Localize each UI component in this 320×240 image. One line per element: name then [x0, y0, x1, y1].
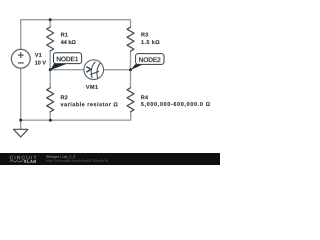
label R3: [141, 33, 148, 37]
node NODE1 flag box: [54, 53, 82, 64]
label R2: [61, 95, 68, 99]
footer title: [46, 155, 75, 158]
footer bar: [0, 153, 220, 165]
node NODE2 text: [139, 57, 161, 62]
wire ground stub: [20, 120, 22, 129]
junction node mid R1R2: [49, 68, 52, 71]
node NODE1 flag pointer: [50, 63, 66, 70]
label R4: [141, 95, 148, 99]
junction ground tee: [19, 119, 22, 122]
value 1.5 kOhm: [141, 40, 159, 44]
footer logo wave: [10, 160, 24, 162]
label V1: [35, 53, 42, 57]
voltmeter VM1 arrow: [86, 67, 91, 73]
wire R2 top lead: [49, 70, 51, 88]
label R1: [61, 33, 68, 37]
wire top rail: [21, 20, 131, 50]
wire R1 bottom lead: [49, 51, 51, 70]
value 44 kOhm: [61, 40, 76, 44]
wire mid right: [104, 69, 131, 71]
resistor R1: [47, 27, 54, 51]
wire R3 bottom lead: [130, 51, 132, 69]
junction node mid R3R4: [129, 68, 132, 71]
voltmeter VM1: [84, 60, 104, 80]
label VM1: [86, 85, 98, 89]
ground: [14, 129, 28, 137]
footer url: [46, 159, 108, 162]
value 5,000,000-600,000.0 Ohm: [141, 102, 210, 107]
wire R4 top lead: [130, 70, 132, 88]
value 10 V: [35, 61, 46, 65]
wire left rail bottom: [20, 68, 22, 120]
footer logo square: [24, 160, 26, 163]
wire R1 top lead: [49, 20, 51, 27]
resistor R4: [127, 88, 134, 112]
node NODE2 flag pointer: [131, 64, 143, 70]
footer logo LAB: [27, 160, 36, 163]
resistor R2: [47, 88, 54, 112]
node NODE2 flag box: [136, 54, 164, 65]
wire bottom rail: [21, 112, 131, 120]
value variable resistor Ohm: [61, 102, 118, 106]
junction top R1: [49, 18, 52, 21]
wire mid left: [50, 69, 84, 71]
resistor R3: [127, 27, 134, 51]
junction R2 bottom: [49, 119, 52, 122]
node NODE1 text: [57, 57, 79, 62]
footer logo CIRCUIT: [10, 156, 37, 160]
wire R2 bottom lead: [49, 112, 51, 120]
voltage source V1: [11, 49, 30, 68]
